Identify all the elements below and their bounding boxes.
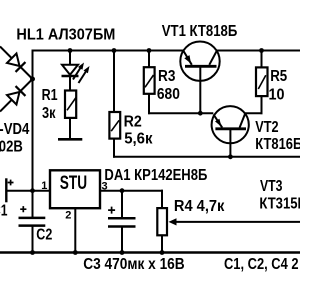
svg-text:КТ315Г: КТ315Г: [259, 196, 300, 213]
svg-text:10: 10: [269, 87, 285, 104]
svg-text:КТ816Б: КТ816Б: [255, 136, 300, 153]
svg-text:С3 470мк х 16В: С3 470мк х 16В: [83, 256, 185, 273]
svg-text:VT1 КТ818Б: VT1 КТ818Б: [162, 23, 238, 40]
svg-text:1: 1: [41, 180, 47, 192]
svg-text:HL1 АЛ307БМ: HL1 АЛ307БМ: [16, 27, 115, 44]
svg-text:VT2: VT2: [255, 119, 278, 136]
svg-text:DA1 КР142ЕН8Б: DA1 КР142ЕН8Б: [104, 167, 207, 184]
svg-text:5,6к: 5,6к: [124, 131, 153, 148]
svg-text:680: 680: [157, 86, 180, 103]
svg-text:С1: С1: [0, 203, 8, 220]
svg-text:R5: R5: [270, 68, 287, 85]
svg-text:3к: 3к: [42, 105, 56, 122]
svg-text:02В: 02В: [0, 139, 23, 156]
svg-text:R4 4,7к: R4 4,7к: [174, 198, 225, 215]
svg-text:С2: С2: [36, 227, 52, 244]
svg-text:С1, С2, С4 2: С1, С2, С4 2: [224, 256, 299, 273]
svg-text:2: 2: [65, 210, 71, 222]
svg-text:R1: R1: [42, 87, 58, 104]
svg-text:VT3: VT3: [260, 178, 283, 195]
svg-text:STU: STU: [60, 173, 87, 194]
svg-text:3: 3: [102, 181, 108, 193]
svg-text:R3: R3: [158, 68, 176, 85]
svg-text:R2: R2: [124, 113, 142, 130]
svg-text:-VD4: -VD4: [0, 121, 30, 138]
